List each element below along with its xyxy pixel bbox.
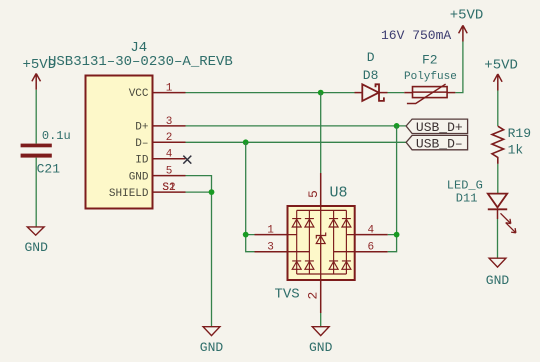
wire TVS pin2 to GND xyxy=(320,313,322,326)
no-connect X on ID pin xyxy=(183,156,191,164)
wire J4 SHIELD pin to vertical xyxy=(186,191,212,193)
TVS array U8 xyxy=(255,173,388,313)
junction TVS pin4 xyxy=(394,232,400,238)
svg-text:F2: F2 xyxy=(422,53,438,68)
svg-text:+5VD: +5VD xyxy=(450,7,484,23)
internal center line xyxy=(320,206,322,280)
svg-text:D: D xyxy=(367,50,375,65)
center zener xyxy=(316,233,326,244)
capacitor C21 xyxy=(21,129,71,177)
pin 2 D- xyxy=(153,141,186,143)
pin 5 (top) xyxy=(320,173,322,206)
LED D11 xyxy=(447,179,516,233)
ground GND (under J4) xyxy=(200,327,224,355)
svg-text:2: 2 xyxy=(166,132,173,144)
wire J4 GND pin to vertical xyxy=(186,176,212,327)
pin 2 (bottom) xyxy=(320,280,322,313)
polyfuse F2 xyxy=(404,53,457,104)
svg-text:D–: D– xyxy=(135,138,148,150)
svg-text:D+: D+ xyxy=(135,122,148,134)
pin 6 (right lower) xyxy=(355,251,388,253)
resistor R19 xyxy=(492,126,531,164)
connector J4 body xyxy=(86,76,153,209)
svg-text:GND: GND xyxy=(25,240,49,255)
pin S1 S2 SHIELD xyxy=(153,191,186,193)
svg-text:Polyfuse: Polyfuse xyxy=(404,71,457,83)
svg-text:6: 6 xyxy=(368,242,375,254)
internal top rail xyxy=(297,209,347,211)
svg-text:ID: ID xyxy=(135,155,149,167)
svg-text:4: 4 xyxy=(368,225,375,237)
column B diodes xyxy=(305,210,314,274)
pin 4 (right upper) xyxy=(355,234,388,236)
svg-text:1: 1 xyxy=(166,83,173,95)
ground GND (under C21) xyxy=(25,227,49,255)
connector J4 xyxy=(48,40,233,209)
svg-text:2: 2 xyxy=(306,292,321,300)
junction TVS pin1 xyxy=(243,232,249,238)
svg-text:TVS: TVS xyxy=(275,287,300,303)
pin 1 VCC xyxy=(153,92,186,94)
global label USB_D- xyxy=(406,135,468,151)
svg-text:16V 750mA: 16V 750mA xyxy=(381,28,451,43)
diode D8 (Schottky) xyxy=(355,50,388,101)
svg-text:3: 3 xyxy=(166,116,173,128)
wire +5VD to C21 xyxy=(35,90,37,144)
power symbol +5VD (above R19) xyxy=(484,58,518,91)
wire D11 to GND xyxy=(497,219,499,258)
pin 1 (left upper) xyxy=(255,234,288,236)
junction D- / TVS xyxy=(243,139,249,145)
junction D+ / TVS xyxy=(394,123,400,129)
ground GND (under U8) xyxy=(309,327,333,355)
column A diodes xyxy=(292,210,301,274)
pin 5 GND xyxy=(153,175,186,177)
column C diodes xyxy=(329,210,338,274)
wire R19 to D11 xyxy=(497,164,499,194)
wire D+ junction down to TVS pins 4,6 xyxy=(388,126,397,252)
svg-text:USB_D–: USB_D– xyxy=(416,137,463,152)
svg-text:VCC: VCC xyxy=(129,88,149,100)
internal bottom rail xyxy=(297,273,347,275)
svg-text:4: 4 xyxy=(166,149,173,161)
U8 body xyxy=(288,206,355,280)
wire VCC row xyxy=(186,92,355,94)
pin 3 (left lower) xyxy=(255,251,288,253)
wire D- junction down to TVS pins 1,3 xyxy=(246,142,255,251)
pin 4 ID xyxy=(153,158,186,160)
wire VCC junction down to TVS pin 5 xyxy=(320,93,322,173)
junction SHIELD xyxy=(209,189,215,195)
svg-text:0.1u: 0.1u xyxy=(42,129,71,143)
svg-text:C21: C21 xyxy=(37,162,61,177)
wire +5VD to R19 xyxy=(497,91,499,127)
svg-text:5: 5 xyxy=(166,166,173,178)
svg-text:3: 3 xyxy=(267,242,274,254)
svg-text:S1: S1 xyxy=(162,182,176,194)
svg-text:5: 5 xyxy=(306,190,321,198)
global label USB_D+ xyxy=(406,119,468,135)
svg-text:USB3131–30–0230–A_REVB: USB3131–30–0230–A_REVB xyxy=(48,54,233,70)
svg-text:R19: R19 xyxy=(508,126,531,141)
column D diodes xyxy=(342,210,351,274)
svg-text:1k: 1k xyxy=(508,142,524,157)
pin 3 D+ xyxy=(153,125,186,127)
svg-text:+5VD: +5VD xyxy=(484,58,518,74)
svg-text:SHIELD: SHIELD xyxy=(109,188,149,200)
svg-text:U8: U8 xyxy=(330,185,348,202)
wire D8 to F2 xyxy=(388,92,405,94)
power symbol +5VD (above F2) xyxy=(450,7,484,41)
svg-text:D11: D11 xyxy=(456,191,478,205)
wire D- row xyxy=(186,141,407,143)
svg-text:GND: GND xyxy=(486,273,510,288)
svg-text:GND: GND xyxy=(309,340,333,355)
wire F2 to +5VD xyxy=(455,42,463,93)
wire D+ row xyxy=(186,125,407,127)
wire C21 to GND xyxy=(35,158,37,227)
ground GND (under D11) xyxy=(486,258,510,288)
svg-text:GND: GND xyxy=(200,340,224,355)
power symbol +5VD (left rail) xyxy=(23,57,57,90)
internal pin taps xyxy=(288,235,355,252)
svg-text:GND: GND xyxy=(129,171,149,183)
junction VCC/TVS pin5 xyxy=(318,90,324,96)
svg-text:D8: D8 xyxy=(363,68,379,83)
svg-text:1: 1 xyxy=(267,225,274,237)
svg-text:USB_D+: USB_D+ xyxy=(416,120,463,135)
